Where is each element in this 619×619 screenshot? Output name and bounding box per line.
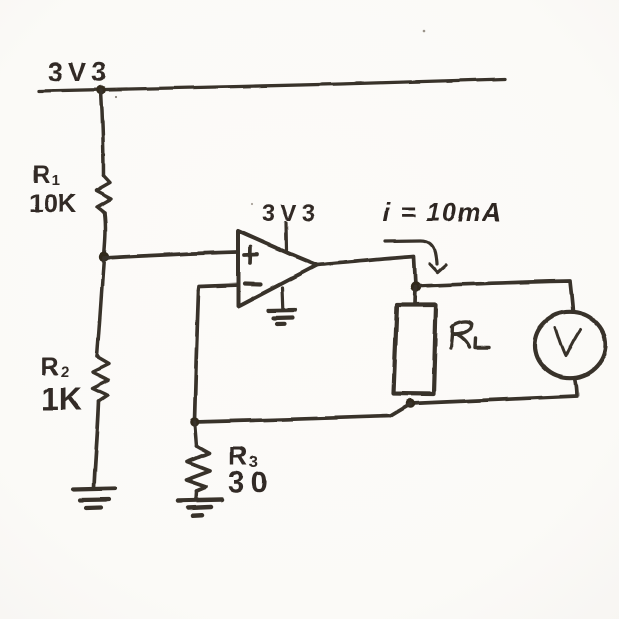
wire R2 to ground bbox=[94, 401, 99, 488]
resistor R2 zigzag bbox=[93, 357, 109, 401]
resistor R1 zigzag bbox=[96, 176, 111, 213]
wire R3 to ground bbox=[194, 491, 198, 499]
svg-text:10K: 10K bbox=[29, 188, 77, 218]
label RL bbox=[451, 322, 489, 348]
svg-text:3V3: 3V3 bbox=[262, 200, 320, 227]
op-amp minus sign bbox=[245, 282, 261, 287]
wire node A to R2 bbox=[97, 258, 104, 357]
wire supply to op-amp bbox=[284, 223, 288, 250]
wire node C diagonal bbox=[390, 404, 410, 416]
wire minus input left bbox=[199, 285, 239, 290]
op-amp U1 triangle bbox=[238, 231, 317, 307]
wire 3V3 power rail bbox=[39, 79, 505, 91]
wire node B to voltmeter bbox=[420, 281, 573, 312]
node B output junction bbox=[410, 282, 420, 292]
wire R1 to node A bbox=[104, 213, 105, 256]
wire node D to R3 bbox=[195, 422, 197, 446]
voltmeter V circle bbox=[535, 312, 606, 378]
wire op-amp output bbox=[317, 257, 416, 287]
ground under R3 bbox=[178, 500, 222, 516]
wire feedback vertical bbox=[195, 290, 199, 421]
op-amp plus sign bbox=[244, 247, 257, 263]
resistor R3 zigzag bbox=[186, 446, 210, 491]
voltmeter V glyph bbox=[555, 328, 581, 357]
wire node A to op-amp plus input bbox=[104, 252, 237, 258]
node rail junction bbox=[96, 85, 106, 95]
ground under R2 bbox=[73, 489, 115, 509]
wire feedback horizontal bbox=[195, 416, 391, 422]
svg-text:1K: 1K bbox=[41, 381, 82, 417]
arrowhead bbox=[430, 264, 447, 273]
arrow current bbox=[385, 241, 437, 264]
wire op-amp to ground bbox=[281, 288, 285, 309]
svg-text:i = 10mA: i = 10mA bbox=[383, 197, 503, 227]
node C RL bottom bbox=[405, 399, 415, 409]
node A bbox=[99, 252, 109, 262]
svg-text:30: 30 bbox=[228, 466, 273, 499]
wire node B to RL top bbox=[413, 287, 417, 304]
node D feedback R3 junction bbox=[190, 417, 200, 427]
resistor RL box bbox=[394, 305, 437, 394]
wire rail to R1 bbox=[101, 90, 104, 176]
ground op-amp bbox=[269, 310, 295, 324]
wire voltmeter to bottom bbox=[411, 378, 577, 404]
svg-text:3V3: 3V3 bbox=[48, 57, 111, 87]
